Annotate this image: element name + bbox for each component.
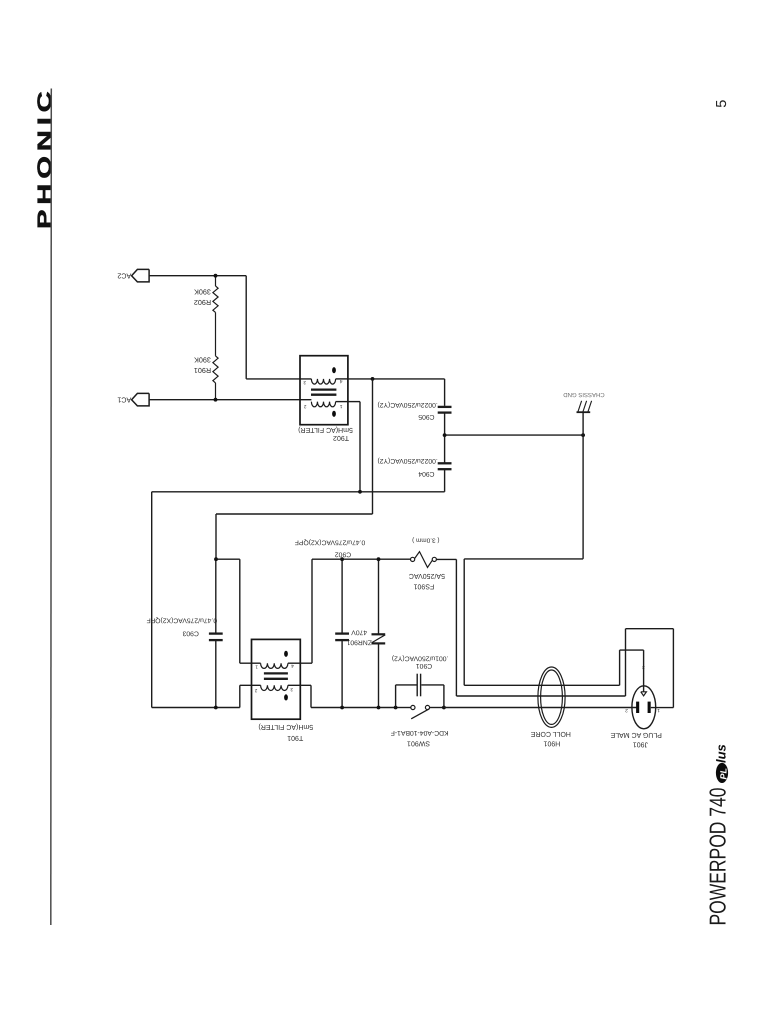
svg-text:AC2: AC2 bbox=[117, 271, 131, 280]
wire bbox=[378, 559, 380, 634]
wire bbox=[310, 685, 312, 707]
svg-text:3: 3 bbox=[303, 379, 306, 385]
page number 5 bbox=[714, 100, 730, 108]
svg-text:PHONIC: PHONIC bbox=[34, 86, 56, 229]
pin 2 bbox=[625, 707, 628, 713]
label C901 bbox=[392, 655, 449, 669]
wire bbox=[619, 650, 621, 685]
wire bbox=[444, 469, 446, 492]
wire bbox=[216, 558, 240, 560]
label C902 bbox=[295, 539, 366, 558]
wire bbox=[463, 559, 465, 685]
junction bbox=[340, 706, 344, 710]
capacitor C902 bbox=[335, 634, 349, 641]
wire bbox=[625, 629, 627, 696]
svg-text:FS901: FS901 bbox=[413, 582, 434, 589]
wire bbox=[215, 640, 217, 707]
svg-text:470V: 470V bbox=[351, 629, 367, 636]
svg-text:HOLL CORE: HOLL CORE bbox=[530, 730, 571, 737]
junction bbox=[371, 377, 375, 381]
svg-text:lus: lus bbox=[713, 744, 728, 763]
svg-text:390K: 390K bbox=[194, 355, 211, 364]
Plus logo bbox=[713, 744, 728, 783]
junction bbox=[214, 557, 218, 561]
pin 1 bbox=[339, 403, 342, 409]
svg-text:2: 2 bbox=[304, 403, 307, 409]
svg-text:0.47u/275VAC(X2)QPF: 0.47u/275VAC(X2)QPF bbox=[147, 616, 218, 623]
wire bbox=[395, 685, 397, 708]
pin 2 bbox=[254, 687, 257, 693]
wire bbox=[312, 558, 411, 560]
wire bbox=[456, 695, 625, 697]
resistor R902 390K bbox=[213, 286, 218, 312]
wire bbox=[359, 402, 361, 492]
svg-text:C904: C904 bbox=[418, 470, 434, 477]
wire bbox=[626, 628, 674, 630]
transformer T902 bbox=[300, 356, 348, 425]
plug J901 bbox=[632, 686, 656, 729]
svg-text:5A/250VAC: 5A/250VAC bbox=[409, 572, 445, 580]
label T902 bbox=[298, 426, 353, 441]
svg-text:R902: R902 bbox=[194, 298, 211, 307]
wire bbox=[396, 707, 411, 709]
pin 1 bbox=[255, 664, 258, 670]
svg-text:T902: T902 bbox=[333, 434, 349, 441]
junction bbox=[394, 706, 398, 710]
svg-text:AC1: AC1 bbox=[117, 395, 131, 404]
svg-text:4: 4 bbox=[291, 663, 294, 669]
varistor ZNR901 bbox=[372, 634, 386, 643]
wire bbox=[215, 276, 217, 286]
wire bbox=[643, 650, 645, 692]
wire bbox=[348, 378, 445, 380]
wire bbox=[444, 435, 446, 463]
resistor R901 390K bbox=[213, 356, 218, 383]
wire bbox=[464, 558, 583, 560]
wire bbox=[149, 275, 246, 277]
pin 3 bbox=[303, 379, 306, 385]
svg-text:SW901: SW901 bbox=[407, 740, 430, 747]
wire bbox=[341, 559, 343, 633]
junction bbox=[443, 433, 447, 437]
svg-text:C905: C905 bbox=[418, 413, 434, 420]
junction bbox=[377, 706, 381, 710]
wire bbox=[216, 513, 373, 515]
wire bbox=[341, 640, 343, 707]
wire bbox=[443, 685, 445, 708]
junction bbox=[358, 490, 362, 494]
wire bbox=[152, 707, 240, 709]
svg-text:2: 2 bbox=[625, 707, 628, 713]
label FS901 bbox=[409, 536, 445, 589]
connector AC1 bbox=[132, 393, 150, 406]
wire bbox=[651, 707, 674, 709]
wire bbox=[436, 558, 456, 560]
wire bbox=[215, 312, 217, 356]
svg-text:PLUG AC MALE: PLUG AC MALE bbox=[610, 731, 662, 738]
svg-text:H901: H901 bbox=[543, 740, 560, 747]
wire bbox=[672, 629, 674, 708]
svg-text:3: 3 bbox=[290, 686, 293, 692]
svg-text:.001u/250VAC(Y2): .001u/250VAC(Y2) bbox=[392, 655, 449, 662]
label ZNR901 470V bbox=[346, 629, 372, 646]
wire bbox=[215, 383, 217, 400]
header rule bbox=[50, 89, 53, 926]
junction bbox=[340, 557, 344, 561]
label C903 bbox=[147, 616, 218, 636]
wire bbox=[455, 559, 457, 696]
svg-text:4: 4 bbox=[339, 378, 342, 384]
svg-text:PL: PL bbox=[718, 768, 728, 780]
wire bbox=[372, 379, 374, 514]
label C904 bbox=[377, 457, 437, 477]
label AC2 bbox=[117, 271, 131, 280]
wire bbox=[151, 492, 153, 708]
label H901 bbox=[530, 730, 571, 747]
label J901 bbox=[610, 731, 662, 747]
label R902 390K bbox=[194, 287, 211, 307]
svg-text:.0022u/250VAC(Y2): .0022u/250VAC(Y2) bbox=[377, 401, 437, 408]
capacitor C904 bbox=[438, 463, 452, 469]
label T901 bbox=[258, 723, 313, 741]
pin 3 bbox=[642, 664, 645, 670]
svg-text:0.47u/275VAC(X2)QPF: 0.47u/275VAC(X2)QPF bbox=[295, 539, 366, 546]
svg-text:J901: J901 bbox=[633, 741, 648, 748]
wire bbox=[396, 684, 417, 686]
pin 2 bbox=[304, 403, 307, 409]
label AC1 bbox=[117, 395, 131, 404]
wire bbox=[239, 685, 241, 707]
pin 4 bbox=[339, 378, 342, 384]
wire bbox=[311, 559, 313, 663]
transformer T901 bbox=[240, 639, 312, 719]
label CHASSIS GND bbox=[563, 391, 605, 398]
label C905 bbox=[377, 401, 437, 420]
fuse FS901 bbox=[411, 552, 437, 568]
capacitor C903 bbox=[209, 634, 223, 641]
wire bbox=[246, 378, 311, 380]
svg-text:5: 5 bbox=[714, 100, 730, 108]
svg-text:C903: C903 bbox=[182, 629, 198, 636]
svg-text:1: 1 bbox=[657, 707, 660, 713]
pin 3 bbox=[290, 686, 293, 692]
junction bbox=[214, 274, 218, 278]
connector AC2 bbox=[132, 269, 150, 282]
capacitor C905 bbox=[438, 407, 452, 413]
svg-text:3: 3 bbox=[642, 664, 645, 670]
junction bbox=[214, 398, 218, 402]
footer POWERPOD 740 bbox=[705, 788, 731, 926]
wire bbox=[620, 649, 644, 651]
wire bbox=[348, 401, 360, 403]
switch SW901 bbox=[411, 705, 430, 718]
wire bbox=[444, 379, 446, 406]
svg-text:ZNR901: ZNR901 bbox=[346, 639, 372, 646]
junction bbox=[377, 557, 381, 561]
wire bbox=[445, 434, 583, 436]
label R901 390K bbox=[194, 355, 211, 375]
svg-text:2: 2 bbox=[254, 687, 257, 693]
PHONIC logo bbox=[34, 86, 56, 229]
svg-text:1: 1 bbox=[255, 664, 258, 670]
wire bbox=[421, 684, 444, 686]
svg-text:390K: 390K bbox=[194, 287, 211, 296]
svg-text:5mH(AC FILTER): 5mH(AC FILTER) bbox=[258, 723, 313, 731]
svg-text:KDC-A04-10BA1-F: KDC-A04-10BA1-F bbox=[391, 729, 449, 736]
chassis ground bbox=[577, 401, 592, 412]
svg-text:R901: R901 bbox=[194, 366, 211, 375]
wire bbox=[152, 491, 445, 493]
wire bbox=[464, 684, 619, 686]
svg-text:.0022u/250VAC(Y2): .0022u/250VAC(Y2) bbox=[377, 457, 437, 464]
earth pin of plug bbox=[641, 692, 647, 696]
svg-text:POWERPOD 740: POWERPOD 740 bbox=[705, 788, 731, 926]
svg-text:( 3.0mm ): ( 3.0mm ) bbox=[412, 536, 439, 543]
wire bbox=[444, 707, 637, 709]
svg-text:C901: C901 bbox=[416, 662, 432, 669]
wire bbox=[311, 707, 396, 709]
junction bbox=[442, 706, 446, 710]
wire bbox=[215, 514, 217, 559]
wire bbox=[378, 643, 380, 707]
pin 1 bbox=[657, 707, 660, 713]
toroid H901 HOLL CORE bbox=[538, 667, 565, 727]
wire bbox=[444, 413, 446, 436]
label SW901 bbox=[391, 729, 449, 746]
wire bbox=[582, 412, 584, 559]
junction bbox=[214, 706, 218, 710]
pin 4 bbox=[291, 663, 294, 669]
wire bbox=[215, 559, 217, 633]
svg-text:T901: T901 bbox=[287, 734, 303, 741]
wire bbox=[430, 707, 444, 709]
junction bbox=[581, 433, 585, 437]
svg-text:1: 1 bbox=[339, 403, 342, 409]
capacitor C901 bbox=[417, 674, 420, 697]
svg-text:C902: C902 bbox=[335, 550, 351, 557]
wire bbox=[245, 276, 247, 379]
wire bbox=[239, 559, 241, 663]
svg-text:CHASSIS GND: CHASSIS GND bbox=[563, 391, 605, 398]
wire bbox=[149, 399, 311, 401]
svg-text:5mH(AC FILTER): 5mH(AC FILTER) bbox=[298, 426, 353, 434]
